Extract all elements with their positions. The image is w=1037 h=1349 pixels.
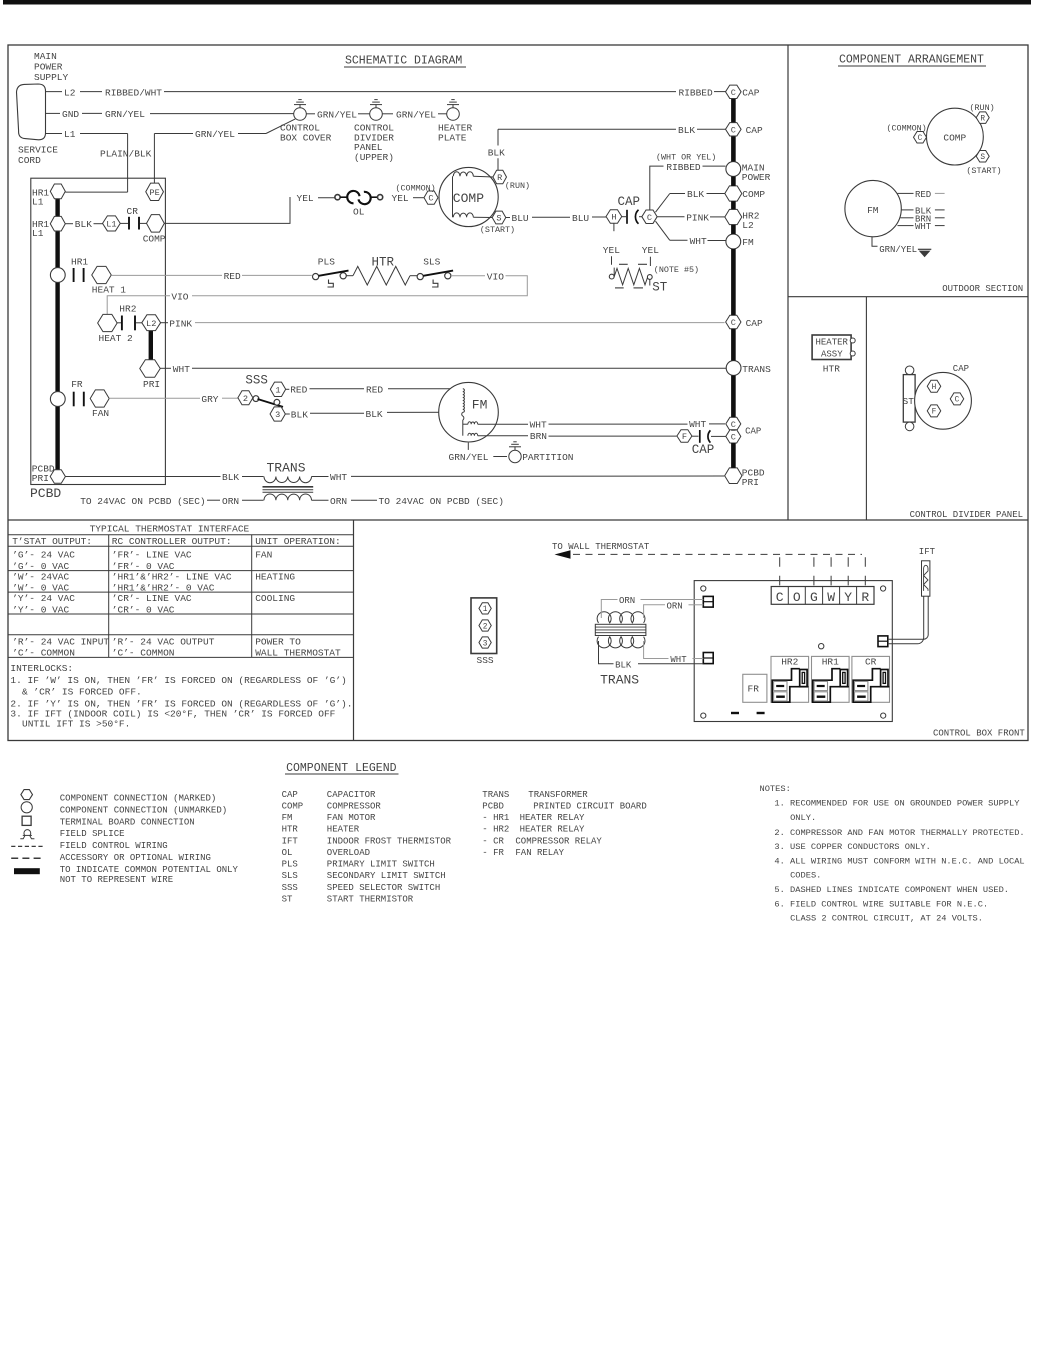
transformer TRANS (front) secondary winding	[597, 637, 645, 648]
table row line	[8, 570, 354, 572]
svg-text:PRINTED CIRCUIT BOARD: PRINTED CIRCUIT BOARD	[533, 801, 646, 811]
chassis ground symbol	[918, 249, 931, 257]
table row line	[8, 656, 354, 658]
svg-text:PRI: PRI	[742, 477, 759, 488]
svg-text:WHT: WHT	[173, 364, 190, 375]
svg-text:CLASS 2 CONTROL CIRCUIT, AT 24: CLASS 2 CONTROL CIRCUIT, AT 24 VOLTS.	[790, 914, 983, 924]
wire heater RED	[111, 274, 222, 276]
terminal C (cap common)	[642, 210, 657, 224]
COMP run winding	[452, 176, 454, 217]
svg-text:HEATER: HEATER	[816, 337, 849, 347]
relay contact FR (N.O.)	[74, 392, 84, 407]
terminal R (run)	[493, 170, 507, 183]
wire WHT run to PCBD PRI	[351, 475, 724, 477]
svg-text:- CR: - CR	[482, 836, 504, 846]
FM aux winding WHT	[468, 422, 478, 424]
legend symbol square (terminal board)	[22, 816, 31, 825]
svg-text:RED: RED	[290, 385, 307, 396]
ground symbol control box cover	[294, 100, 306, 105]
svg-text:ACCESSORY OR OPTIONAL WIRING: ACCESSORY OR OPTIONAL WIRING	[60, 853, 211, 863]
FM winding tail squiggle	[462, 412, 464, 420]
svg-text:COMPONENT ARRANGEMENT: COMPONENT ARRANGEMENT	[839, 54, 984, 67]
wire L1 from service cord	[46, 133, 63, 135]
control box front outline	[694, 581, 892, 722]
svg-text:ASSY: ASSY	[821, 349, 843, 359]
svg-text:BLU: BLU	[572, 213, 589, 224]
svg-text:HR2: HR2	[119, 303, 136, 314]
svg-text:TRANS: TRANS	[742, 364, 771, 375]
wire	[351, 499, 377, 501]
svg-text:C: C	[776, 590, 784, 605]
FM main winding (vertical)	[463, 389, 465, 413]
wire	[413, 197, 424, 199]
table col divider 2	[251, 535, 253, 658]
terminal control box cover	[294, 108, 307, 121]
panel divider horizontal (schematic bottom)	[8, 519, 1028, 521]
wire	[638, 663, 703, 665]
wire WHT run	[549, 423, 688, 425]
svg-text:CAP: CAP	[746, 318, 763, 329]
wire BRN run	[549, 435, 677, 437]
terminal SSS 1	[270, 382, 285, 396]
lead stub	[935, 217, 945, 219]
wire YEL tick	[611, 256, 613, 265]
wire BLK run	[498, 128, 676, 130]
compressor motor COMP (circle)	[439, 167, 498, 226]
panel divider horizontal (outdoor section bottom)	[788, 296, 1028, 298]
svg-text:RED: RED	[366, 384, 383, 395]
field wiring dashed drop	[830, 557, 832, 590]
svg-text:CODES.: CODES.	[790, 871, 821, 881]
svg-text:BLU: BLU	[512, 213, 529, 224]
svg-text:C: C	[731, 420, 736, 430]
field wiring dashed run	[573, 553, 862, 555]
svg-text:PCBD: PCBD	[30, 486, 61, 501]
svg-text:- FR: - FR	[482, 848, 504, 858]
capacitor CAP (fan) plates	[700, 430, 711, 443]
service cord connector	[17, 84, 46, 140]
relay HR1	[812, 656, 850, 702]
wire	[242, 499, 264, 501]
svg-text:FIELD CONTROL WIRING: FIELD CONTROL WIRING	[60, 841, 168, 851]
svg-text:’Y’- 0 VAC: ’Y’- 0 VAC	[12, 604, 69, 615]
svg-text:’R’- 24 VAC INPUT: ’R’- 24 VAC INPUT	[12, 636, 109, 647]
wire	[310, 388, 365, 390]
terminal control divider panel	[370, 108, 383, 121]
svg-text:L2: L2	[64, 87, 76, 98]
wire L1 PLAIN/BLK	[80, 133, 128, 135]
wire L2 to RIBBED/WHT	[80, 91, 102, 93]
svg-text:TYPICAL THERMOSTAT INTERFACE: TYPICAL THERMOSTAT INTERFACE	[90, 524, 250, 535]
svg-text:’HR1’&’HR2’- LINE VAC: ’HR1’&’HR2’- LINE VAC	[112, 571, 232, 582]
wire ORN lower	[644, 605, 665, 618]
svg-text:IFT: IFT	[282, 836, 299, 846]
svg-text:PCBD: PCBD	[482, 801, 504, 811]
svg-text:PARTITION: PARTITION	[522, 452, 573, 463]
svg-text:MAIN: MAIN	[34, 51, 57, 62]
svg-text:COMPRESSOR RELAY: COMPRESSOR RELAY	[515, 836, 602, 846]
svg-text:- HR1: - HR1	[482, 813, 509, 823]
svg-text:COMP: COMP	[282, 801, 304, 811]
svg-text:H: H	[611, 213, 616, 223]
svg-text:F: F	[682, 432, 687, 442]
svg-text:YEL: YEL	[603, 245, 620, 256]
wire	[493, 456, 507, 458]
terminal S (start)	[976, 151, 989, 163]
wire BLK	[599, 641, 614, 664]
terminal H (herm)	[606, 210, 622, 224]
terminal FM (unmarked)	[726, 234, 741, 249]
svg-text:TRANSFORMER: TRANSFORMER	[528, 790, 588, 800]
wire	[242, 476, 264, 478]
svg-text:UNTIL IFT IS >50°F.: UNTIL IFT IS >50°F.	[22, 718, 130, 729]
terminal C CAP (PINK)	[726, 315, 741, 329]
terminal PARTITION	[509, 450, 521, 462]
fan motor FM (circle)	[439, 382, 499, 442]
wire	[622, 216, 626, 218]
svg-text:(UPPER): (UPPER)	[354, 152, 394, 163]
wire GRN/YEL	[238, 133, 266, 135]
svg-text:TERMINAL BOARD CONNECTION: TERMINAL BOARD CONNECTION	[60, 817, 195, 827]
heater element HTR	[353, 266, 410, 285]
transformer TRANS (front) primary winding	[597, 612, 645, 623]
mounting hole	[881, 713, 886, 718]
svg-text:’R’- 24 VAC OUTPUT: ’R’- 24 VAC OUTPUT	[112, 636, 215, 647]
svg-text:1: 1	[483, 606, 488, 614]
relay contact CR (N.O.)	[129, 217, 139, 230]
svg-text:FIELD SPLICE: FIELD SPLICE	[60, 829, 125, 839]
svg-text:CAP: CAP	[692, 443, 715, 457]
terminal L1	[103, 216, 121, 231]
svg-text:BLK: BLK	[75, 219, 92, 230]
svg-text:C: C	[918, 135, 923, 143]
wire	[120, 222, 128, 224]
wire	[65, 223, 73, 225]
svg-text:RED: RED	[224, 271, 241, 282]
mounting hole	[701, 713, 706, 718]
svg-text:GND: GND	[62, 109, 79, 120]
wire	[592, 216, 606, 218]
svg-text:BOX COVER: BOX COVER	[280, 132, 332, 143]
svg-text:Y: Y	[844, 590, 852, 605]
svg-text:HEATER RELAY: HEATER RELAY	[520, 813, 585, 823]
legend symbol hexagon (marked connection)	[21, 790, 33, 800]
svg-text:& ’CR’ IS FORCED OFF.: & ’CR’ IS FORCED OFF.	[22, 687, 142, 698]
svg-text:HR2: HR2	[781, 657, 798, 668]
svg-text:COMP: COMP	[453, 191, 484, 206]
svg-text:HEATING: HEATING	[255, 571, 295, 582]
panel divider vertical (control divider panel inner)	[865, 297, 867, 520]
svg-text:’C’- COMMON: ’C’- COMMON	[112, 648, 175, 659]
wire	[693, 658, 704, 660]
svg-text:H: H	[932, 384, 937, 392]
svg-text:TRANS: TRANS	[482, 790, 509, 800]
svg-text:WALL THERMOSTAT: WALL THERMOSTAT	[255, 648, 341, 659]
component arrangement: compressor COMP circle	[927, 108, 984, 165]
svg-text:PRI: PRI	[32, 473, 49, 484]
svg-text:TRANS: TRANS	[600, 672, 639, 687]
svg-text:2. COMPRESSOR AND FAN MOTOR TH: 2. COMPRESSOR AND FAN MOTOR THERMALLY PR…	[774, 828, 1024, 838]
terminal C CAP (BLK)	[726, 123, 742, 136]
wire GND from service cord	[46, 112, 61, 114]
legend symbol field splice	[20, 830, 34, 839]
wire	[478, 423, 528, 425]
svg-text:FM: FM	[282, 813, 293, 823]
wire	[463, 423, 468, 425]
wire IFT cable (double line)	[888, 596, 924, 644]
svg-text:RC CONTROLLER OUTPUT:: RC CONTROLLER OUTPUT:	[112, 536, 232, 547]
svg-text:L1: L1	[106, 219, 116, 229]
svg-text:2: 2	[483, 623, 488, 631]
svg-text:IFT: IFT	[919, 547, 936, 557]
wire	[310, 412, 364, 414]
svg-text:TO INDICATE COMMON POTENTIAL O: TO INDICATE COMMON POTENTIAL ONLY	[60, 865, 239, 875]
svg-text:’FR’- 0 VAC: ’FR’- 0 VAC	[112, 561, 175, 572]
svg-text:RIBBED: RIBBED	[679, 87, 714, 98]
svg-text:1. RECOMMENDED FOR USE ON GROU: 1. RECOMMENDED FOR USE ON GROUNDED POWER…	[774, 799, 1020, 809]
svg-text:POWER TO: POWER TO	[255, 636, 301, 647]
svg-text:INDOOR FROST THERMISTOR: INDOOR FROST THERMISTOR	[327, 836, 452, 846]
wire	[709, 423, 725, 425]
wire	[242, 274, 312, 276]
table header underline	[8, 534, 354, 536]
svg-text:C: C	[731, 318, 736, 328]
svg-text:ORN: ORN	[667, 601, 683, 611]
terminal PCBD PRI (left)	[50, 470, 65, 484]
title underline	[344, 66, 466, 68]
wire H stub	[613, 223, 615, 231]
relay contact HR1 (N.O.)	[74, 268, 84, 282]
terminal COMP (bus)	[725, 186, 742, 201]
svg-text:ST: ST	[903, 396, 915, 407]
svg-text:L2: L2	[742, 220, 754, 231]
svg-text:WHT: WHT	[330, 472, 347, 483]
wire row1 to PLAIN/BLK drop	[65, 191, 127, 193]
lead stub	[935, 209, 945, 211]
svg-text:BLK: BLK	[678, 125, 695, 136]
svg-text:(COMMON): (COMMON)	[396, 184, 436, 194]
svg-text:CONTROL BOX FRONT: CONTROL BOX FRONT	[933, 728, 1025, 738]
wire ground stem	[299, 104, 301, 108]
svg-text:YEL: YEL	[392, 193, 409, 204]
wire COMP to overload YEL	[164, 197, 290, 223]
field wiring dashed drop	[864, 557, 866, 590]
lead RED	[898, 192, 914, 194]
svg-text:SPEED SELECTOR SWITCH: SPEED SELECTOR SWITCH	[327, 883, 440, 893]
svg-text:YEL: YEL	[642, 245, 659, 256]
wire R to BLK corner (lower)	[497, 158, 499, 170]
wire	[438, 197, 453, 199]
svg-text:COMPONENT CONNECTION (UNMARKED: COMPONENT CONNECTION (UNMARKED)	[60, 805, 227, 815]
terminal SSS 2	[238, 391, 253, 405]
table row line	[8, 613, 354, 615]
svg-text:OL: OL	[353, 207, 365, 218]
wire C to RIBBED row	[650, 166, 664, 210]
junction bus FAN (unmarked)	[50, 392, 65, 407]
svg-text:GRN/YEL: GRN/YEL	[449, 452, 489, 463]
wire	[222, 397, 238, 399]
table right border	[353, 520, 355, 741]
run capacitor CAP circle (panel)	[915, 372, 972, 429]
transformer TRANS primary winding	[264, 477, 312, 483]
terminal COMP	[147, 215, 165, 233]
wire	[697, 128, 726, 130]
svg-text:R: R	[980, 115, 985, 123]
transformer TRANS (front) core	[595, 624, 646, 635]
svg-text:CAP: CAP	[618, 195, 641, 209]
svg-text:SSS: SSS	[282, 883, 298, 893]
svg-text:SUPPLY: SUPPLY	[34, 72, 69, 83]
svg-text:HTR: HTR	[372, 256, 395, 270]
title underline	[285, 773, 399, 775]
svg-text:COMP: COMP	[943, 132, 966, 143]
wire	[65, 476, 220, 478]
wire FM ground stem	[467, 443, 469, 450]
terminal strip C O G W Y R	[771, 587, 874, 605]
svg-text:C: C	[955, 397, 960, 405]
svg-text:1: 1	[275, 385, 280, 395]
svg-text:BLK: BLK	[615, 660, 632, 670]
svg-text:FM: FM	[742, 237, 754, 248]
svg-text:ORN: ORN	[330, 496, 347, 507]
svg-text:BLK: BLK	[488, 147, 505, 158]
terminal 1	[479, 603, 491, 614]
svg-text:VIO: VIO	[487, 272, 504, 283]
lead stub	[935, 225, 945, 227]
wire diagonal to control box cover lug	[266, 119, 295, 134]
svg-text:COMPONENT CONNECTION (MARKED): COMPONENT CONNECTION (MARKED)	[60, 794, 217, 804]
speed selector switch SSS blade	[253, 396, 283, 407]
svg-text:RIBBED: RIBBED	[666, 162, 701, 173]
svg-text:ST: ST	[652, 281, 668, 295]
svg-text:NOT TO REPRESENT WIRE: NOT TO REPRESENT WIRE	[60, 875, 173, 885]
svg-text:SSS: SSS	[245, 374, 268, 388]
svg-text:’FR’- LINE VAC: ’FR’- LINE VAC	[112, 550, 192, 561]
svg-text:START THERMISTOR: START THERMISTOR	[327, 894, 414, 904]
wire	[382, 113, 393, 115]
wire C diagonal to WHT	[656, 221, 670, 240]
wire	[140, 222, 147, 224]
svg-text:PINK: PINK	[686, 213, 709, 224]
svg-text:(RUN): (RUN)	[970, 103, 995, 113]
svg-text:VIO: VIO	[171, 292, 188, 303]
svg-text:TRANS: TRANS	[267, 460, 306, 475]
start thermistor ST	[609, 268, 652, 286]
terminal HR1/L1 row2	[50, 216, 65, 231]
terminal C (common)	[424, 191, 438, 204]
svg-text:C: C	[731, 432, 736, 442]
svg-text:PINK: PINK	[169, 318, 192, 329]
svg-text:(NOTE #5): (NOTE #5)	[654, 265, 699, 275]
table col divider 1	[108, 535, 110, 658]
svg-text:FM: FM	[867, 205, 879, 216]
svg-text:GRN/YEL: GRN/YEL	[195, 129, 235, 140]
outer border frame	[8, 45, 1028, 741]
field wiring dashed drop	[813, 557, 815, 590]
svg-text:CAP: CAP	[745, 426, 761, 436]
bus thick stub L2 to PRI	[149, 331, 153, 361]
mounting hole	[881, 586, 886, 591]
svg-text:’G’- 0 VAC: ’G’- 0 VAC	[12, 561, 69, 572]
wire winding to R	[473, 175, 493, 178]
lead GRN/YEL	[872, 237, 878, 247]
svg-text:GRN/YEL: GRN/YEL	[317, 110, 357, 121]
svg-text:’CR’- LINE VAC: ’CR’- LINE VAC	[112, 593, 192, 604]
svg-text:CR: CR	[865, 657, 877, 668]
svg-text:COMPRESSOR: COMPRESSOR	[327, 801, 382, 811]
terminal MAIN POWER (unmarked)	[726, 162, 741, 177]
secondary limit switch SLS	[417, 271, 453, 287]
svg-text:SERVICE: SERVICE	[18, 145, 58, 156]
wire	[161, 322, 168, 324]
ground symbol heater plate	[447, 100, 459, 105]
bus common potential bar (thick)	[55, 192, 59, 471]
svg-text:W: W	[827, 590, 835, 605]
wire ground stem	[514, 446, 516, 450]
wire	[410, 275, 417, 277]
svg-text:OL: OL	[282, 848, 293, 858]
svg-text:L1: L1	[64, 129, 76, 140]
svg-text:HEATER RELAY: HEATER RELAY	[520, 825, 585, 835]
svg-text:5. DASHED LINES INDICATE COMPO: 5. DASHED LINES INDICATE COMPONENT WHEN …	[774, 885, 1009, 895]
svg-text:HEATER: HEATER	[327, 825, 360, 835]
component arrangement: fan motor FM circle	[845, 180, 901, 236]
svg-text:SSS: SSS	[477, 655, 494, 666]
svg-text:OVERLOAD: OVERLOAD	[327, 848, 370, 858]
svg-text:R: R	[861, 590, 869, 605]
svg-text:PLATE: PLATE	[438, 132, 467, 143]
terminal C (common)	[914, 131, 927, 143]
svg-text:TO 24VAC ON PCBD (SEC): TO 24VAC ON PCBD (SEC)	[80, 496, 205, 507]
svg-text:ONLY.: ONLY.	[790, 813, 816, 823]
wire	[710, 216, 725, 218]
svg-text:ST: ST	[282, 894, 293, 904]
terminal block (WHT)	[703, 653, 713, 664]
wire PLAIN/BLK drop	[127, 134, 129, 193]
mounting hole	[701, 586, 706, 591]
svg-text:TO WALL THERMOSTAT: TO WALL THERMOSTAT	[552, 542, 650, 552]
svg-text:FR: FR	[748, 683, 760, 694]
terminal HR2/L2 (bus)	[725, 209, 742, 224]
terminal PE	[146, 183, 164, 200]
svg-text:PE: PE	[149, 188, 159, 198]
legend symbol common potential bar	[14, 868, 40, 874]
wire	[478, 435, 528, 437]
svg-text:CAPACITOR: CAPACITOR	[327, 790, 376, 800]
svg-text:BLK: BLK	[291, 409, 308, 420]
wire	[387, 411, 463, 413]
svg-text:- HR2: - HR2	[482, 825, 509, 835]
terminal lug	[850, 338, 855, 343]
junction bus HEAT1 (unmarked)	[50, 268, 65, 283]
wire	[207, 499, 220, 501]
wire PE branch horizontal	[154, 133, 193, 135]
wire	[506, 217, 510, 219]
wire fan GRY	[109, 397, 200, 399]
svg-text:COMP: COMP	[143, 234, 166, 245]
svg-text:R: R	[497, 173, 502, 183]
wire WHT	[644, 641, 669, 659]
terminal heater plate	[447, 108, 460, 121]
svg-text:HEAT 2: HEAT 2	[99, 333, 134, 344]
svg-text:FAN: FAN	[255, 550, 272, 561]
svg-text:COOLING: COOLING	[255, 593, 295, 604]
svg-text:CAP: CAP	[746, 125, 763, 136]
svg-text:SECONDARY LIMIT SWITCH: SECONDARY LIMIT SWITCH	[327, 871, 446, 881]
svg-text:HTR: HTR	[823, 363, 840, 374]
relay HR2	[771, 656, 809, 702]
terminal TRANS (unmarked)	[726, 361, 741, 376]
